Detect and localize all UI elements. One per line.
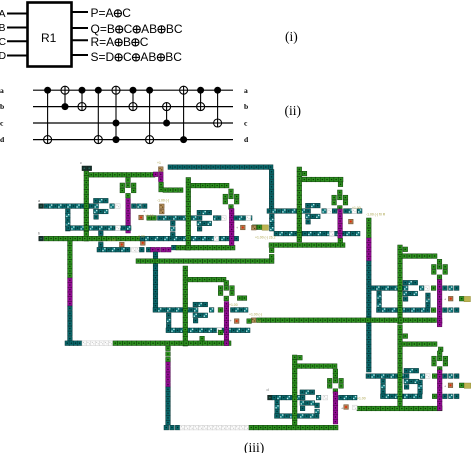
svg-text:C: C bbox=[140, 35, 149, 49]
svg-text:+1.00 (-) 26.2: +1.00 (-) 26.2 bbox=[255, 236, 276, 240]
svg-text:(ii): (ii) bbox=[285, 103, 302, 118]
svg-text:x: x bbox=[428, 297, 430, 301]
svg-text:a: a bbox=[38, 199, 41, 203]
inter-block connecting wires bbox=[136, 238, 345, 263]
svg-text:S=D: S=D bbox=[91, 50, 115, 64]
svg-text:C: C bbox=[0, 36, 7, 48]
svg-text:b: b bbox=[38, 232, 40, 236]
svg-text:c: c bbox=[80, 161, 82, 165]
svg-text:C: C bbox=[123, 50, 132, 64]
svg-text:b: b bbox=[0, 102, 4, 111]
svg-text:C: C bbox=[124, 22, 133, 36]
gate column 9 bbox=[180, 86, 188, 143]
svg-text:+: + bbox=[143, 210, 146, 214]
svg-text:P=A: P=A bbox=[91, 6, 114, 20]
svg-text:-1.00 (-) f0 R: -1.00 (-) f0 R bbox=[366, 213, 386, 217]
svg-text:+: + bbox=[444, 385, 447, 389]
svg-text:b: b bbox=[244, 102, 248, 111]
svg-text:+1.00: +1.00 bbox=[357, 397, 366, 401]
svg-text:-1.00 (-): -1.00 (-) bbox=[157, 199, 169, 203]
gate column 4 bbox=[94, 87, 102, 144]
gate column 10 bbox=[197, 87, 205, 111]
svg-text:R1: R1 bbox=[41, 31, 57, 45]
svg-text:+1.00: +1.00 bbox=[253, 320, 262, 324]
svg-text:B: B bbox=[123, 35, 131, 49]
svg-text:-1.00: -1.00 bbox=[108, 238, 116, 242]
quantum circuit (ii) bbox=[0, 86, 249, 144]
svg-text:-1.00: -1.00 bbox=[137, 235, 145, 239]
svg-text:c: c bbox=[244, 119, 248, 128]
gate column 7 bbox=[146, 87, 154, 144]
svg-text:A: A bbox=[0, 8, 6, 20]
gate column 6 bbox=[129, 87, 137, 111]
svg-text:B: B bbox=[0, 22, 6, 34]
svg-text:d: d bbox=[244, 135, 249, 144]
wire c bbox=[33, 122, 233, 124]
gate column 11 bbox=[214, 87, 222, 127]
QCA layout (iii) bbox=[39, 165, 464, 430]
svg-text:c: c bbox=[0, 119, 4, 128]
svg-text:d: d bbox=[0, 135, 5, 144]
svg-text:R=A: R=A bbox=[91, 35, 115, 49]
wire d bbox=[33, 139, 233, 141]
svg-text:+1.00 (-): +1.00 (-) bbox=[249, 313, 262, 317]
QCA gate block U3 - loop, riser, cross, node label bbox=[252, 167, 363, 242]
svg-text:+1.00: +1.00 bbox=[145, 214, 154, 218]
svg-text:+1.00: +1.00 bbox=[229, 303, 238, 307]
svg-text:a: a bbox=[0, 86, 4, 95]
svg-text:D: D bbox=[0, 50, 7, 62]
gate column 3 bbox=[78, 87, 86, 111]
gate column 8 bbox=[163, 103, 171, 127]
bottom-left wire columns and rows bbox=[65, 241, 338, 430]
QCA gate block U5 - loop, riser, cross, output R badge bbox=[251, 245, 464, 327]
gate column 2 bbox=[61, 86, 69, 110]
output polarity marks bbox=[0, 0, 1, 1]
node column wire to U5 and U7 bbox=[367, 218, 372, 372]
QCA gate block U6 - input d, loop, riser, cross bbox=[268, 355, 442, 425]
svg-text:BC: BC bbox=[165, 50, 182, 64]
svg-text:AB: AB bbox=[140, 50, 156, 64]
svg-text:+1: +1 bbox=[157, 161, 161, 165]
svg-text:a: a bbox=[244, 86, 248, 95]
QCA gate block U7 - loop, riser, cross, output S badge bbox=[366, 325, 464, 411]
svg-text:(iii): (iii) bbox=[244, 440, 264, 453]
input c cell and fanout wires bbox=[82, 165, 274, 241]
svg-text:AB: AB bbox=[141, 22, 157, 36]
svg-text:C: C bbox=[122, 6, 131, 20]
gate column 5 bbox=[112, 86, 120, 143]
QCA gate block U1 - input a row, loop, cross, magenta column bbox=[39, 178, 176, 308]
QCA gate block U4 - loop, riser, cross bbox=[153, 266, 251, 346]
QCA gate block U2 - loop, riser, cross, output Q badge bbox=[147, 178, 262, 251]
gate column 1 bbox=[44, 87, 52, 144]
svg-text:Q=B: Q=B bbox=[91, 22, 115, 36]
svg-text:BC: BC bbox=[166, 22, 183, 36]
svg-text:+: + bbox=[444, 298, 447, 302]
input b cell and wire row bbox=[39, 236, 239, 241]
svg-text:+: + bbox=[230, 319, 233, 323]
svg-text:(i): (i) bbox=[285, 29, 298, 44]
svg-text:+1.00: +1.00 bbox=[352, 206, 361, 210]
gate R1 block diagram (i) bbox=[0, 3, 183, 67]
svg-text:d: d bbox=[267, 388, 269, 392]
svg-text:+: + bbox=[236, 226, 239, 230]
wire a bbox=[33, 89, 233, 91]
wire b bbox=[33, 106, 233, 108]
